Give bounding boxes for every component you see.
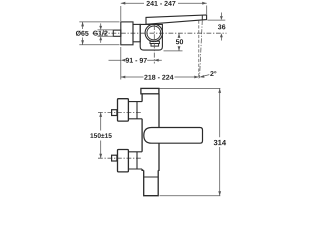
control knob inner circle (147, 26, 161, 40)
svg-text:Ø65: Ø65 (76, 30, 89, 38)
dim 218-224 dimension line (121, 76, 199, 78)
dim 314 bottom extension line (160, 195, 221, 197)
dim 50 dimension line with arrows (178, 33, 180, 51)
dim 314 dimension line with arrows (219, 88, 221, 195)
spout lever (side view wedge) (146, 15, 207, 24)
dim 91-97 wall extension line (120, 47, 122, 80)
dim 241-247 dimension line (121, 2, 207, 4)
svg-text:314: 314 (213, 138, 226, 147)
G1/2 inlet stub (side view) (113, 30, 121, 36)
svg-text:36: 36 (218, 24, 226, 31)
bottom inlet wall flange (118, 150, 129, 172)
svg-text:218 - 224: 218 - 224 (144, 75, 174, 82)
dim 241-247 extension line left (wall plane) (120, 6, 122, 21)
svg-text:91 - 97: 91 - 97 (125, 58, 147, 65)
svg-text:G1/2: G1/2 (93, 29, 108, 37)
bottom inlet stub (112, 155, 117, 161)
top inlet union nut (128, 102, 142, 119)
body foot (144, 170, 159, 195)
top inlet wall flange (118, 99, 129, 121)
dim 241-247 arrowheads (121, 2, 207, 5)
dim 36 arrows (outside, pointing inward) (220, 13, 222, 17)
svg-text:2°: 2° (210, 71, 217, 78)
bottom inlet union nut (128, 152, 142, 169)
wall flange Ø65 (side view) (121, 22, 133, 45)
dim 50 bottom extension line (164, 50, 183, 52)
dim 91-97 dimension line (outside arrows) (109, 59, 162, 61)
2 degree leader arrow (201, 75, 209, 77)
spout mouth line (201, 15, 203, 20)
svg-text:50: 50 (176, 39, 184, 46)
bottom inlet centerline (98, 157, 141, 159)
top inlet stub (112, 110, 117, 116)
body neck (side view) (133, 24, 140, 41)
outlet mousseur tier 2 (151, 44, 159, 47)
dim G1/2 arrows (outside, pointing inward) (100, 23, 102, 26)
body foot joint line (144, 176, 159, 178)
centerline (horizontal dash-dot axis of valve body) (93, 32, 227, 34)
control knob outer circle (145, 24, 162, 41)
dim 314 top extension line (160, 87, 221, 89)
2 degree tilted dash-dot stream line (200, 20, 203, 78)
body main column (front view) (142, 94, 159, 171)
dim Ø65 dimension line with arrows (82, 22, 84, 45)
svg-text:150±15: 150±15 (90, 133, 112, 140)
dim G1/2 extension lines (98, 30, 114, 36)
outlet vertical dash-dot centerline (153, 25, 155, 64)
dim 150+-15 dimension line with arrows (100, 119, 102, 152)
dim 36 top extension line (spout tip underside) (208, 19, 226, 21)
body top cap (141, 88, 159, 93)
vertical dashed plumb line from spout mouth (198, 21, 200, 79)
outlet mousseur tier 1 (150, 41, 159, 43)
spout bar (front view, rounded left cap) (144, 128, 203, 144)
top inlet centerline (98, 111, 141, 113)
svg-text:241 - 247: 241 - 247 (146, 1, 176, 8)
cartridge housing (side view, rounded bottom) (140, 24, 162, 50)
dim 241-247 extension line right (spout tip) (206, 6, 208, 15)
dim Ø65 extension lines (79, 22, 119, 45)
